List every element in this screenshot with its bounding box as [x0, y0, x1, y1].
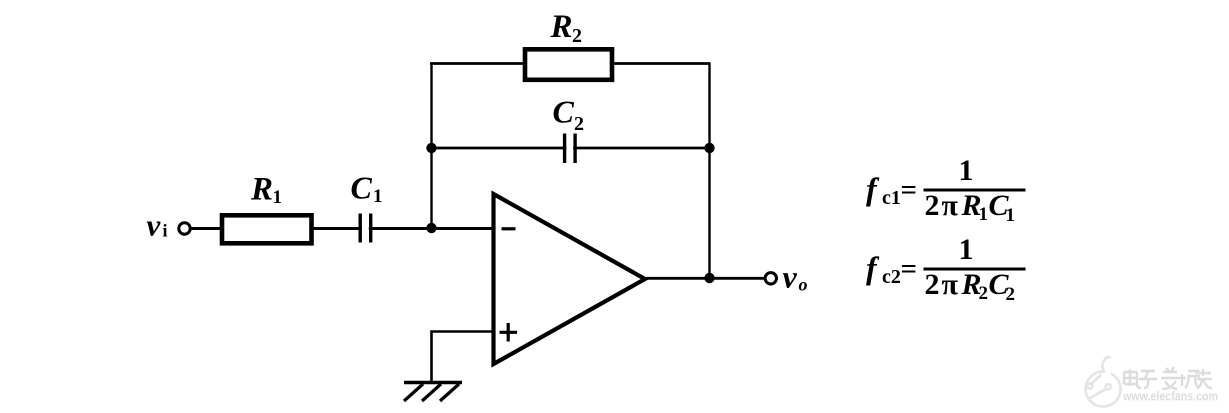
svg-text:c2: c2 — [882, 266, 901, 288]
svg-text:www.elecfans.com: www.elecfans.com — [1122, 390, 1218, 404]
node junction dots — [426, 143, 436, 153]
svg-text:2: 2 — [572, 25, 582, 47]
svg-text:π: π — [942, 268, 959, 301]
capacitor C1 — [360, 212, 371, 244]
svg-text:f: f — [866, 171, 880, 207]
svg-text:1: 1 — [273, 187, 283, 208]
wire: non-inverting input to ground — [432, 332, 494, 383]
svg-text:1: 1 — [1006, 205, 1016, 226]
svg-text:i: i — [163, 221, 168, 241]
resistor R2 — [525, 49, 612, 80]
svg-text:v: v — [783, 259, 798, 295]
output terminal — [765, 273, 776, 284]
input terminal — [179, 223, 190, 234]
svg-text:1: 1 — [959, 233, 974, 266]
wire: right feedback vertical — [708, 63, 710, 279]
svg-text:1: 1 — [979, 204, 989, 225]
svg-text:v: v — [147, 208, 162, 243]
svg-text:=: = — [901, 253, 918, 285]
svg-text:c1: c1 — [882, 187, 901, 209]
ground — [404, 383, 462, 402]
wire: left feedback vertical — [430, 63, 432, 229]
resistor R1 — [222, 215, 312, 243]
svg-text:R: R — [250, 172, 273, 208]
capacitor C2 — [565, 133, 576, 164]
svg-text:C: C — [351, 170, 373, 206]
svg-text:2: 2 — [925, 268, 940, 301]
watermark logo — [1086, 357, 1121, 406]
wire: top feedback horizontal (R2 branch) — [430, 62, 710, 65]
svg-text:2: 2 — [574, 113, 584, 135]
wire: input horizontal to inverting input — [191, 227, 493, 230]
svg-text:C: C — [553, 94, 575, 130]
svg-text:2: 2 — [1006, 284, 1016, 305]
svg-text:o: o — [799, 275, 808, 295]
svg-text:f: f — [866, 250, 880, 286]
op-amp U1 — [494, 194, 646, 364]
formula fc2 = 1/(2 pi R2 C2) — [866, 233, 1026, 305]
svg-text:π: π — [942, 189, 959, 222]
svg-text:2: 2 — [979, 283, 989, 304]
svg-text:=: = — [901, 174, 918, 206]
svg-text:R: R — [550, 9, 573, 45]
svg-text:1: 1 — [959, 154, 974, 187]
svg-text:1: 1 — [373, 186, 383, 207]
formula fc1 = 1/(2 pi R1 C1) — [866, 154, 1026, 226]
watermark text 电子发烧友 (approximated strokes) — [1124, 367, 1212, 389]
wire: middle feedback horizontal (C2 branch) — [430, 147, 710, 150]
wire: output horizontal — [644, 277, 765, 280]
svg-text:2: 2 — [925, 189, 940, 222]
